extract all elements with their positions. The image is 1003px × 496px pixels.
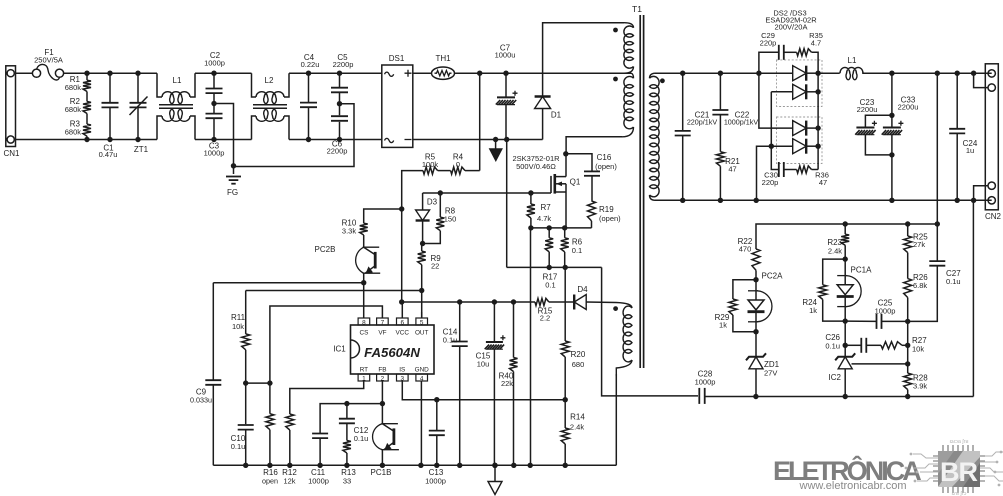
svg-text:3.3k: 3.3k [342, 227, 356, 236]
wire C7 bottom down to sense ground node [506, 140, 508, 268]
wire secondary ground line [655, 199, 992, 201]
svg-text:5: 5 [420, 319, 424, 326]
wire bottom rail L1 to L2 [195, 139, 252, 141]
wire sense ground to C28 corner [602, 267, 698, 396]
pin 8 CS [358, 318, 370, 325]
control ground symbol [492, 463, 497, 468]
svg-text:R7: R7 [541, 203, 552, 212]
diode D3 [422, 193, 424, 210]
wire CS to pin 8 [363, 283, 365, 318]
wire cathodes bus [817, 73, 819, 169]
svg-text:2200u: 2200u [898, 103, 919, 112]
svg-text:0.1: 0.1 [572, 246, 582, 255]
wire secondary positive line [655, 72, 759, 74]
capacitor C25 1000p [845, 320, 876, 322]
resistor R10 3.3k [364, 209, 402, 223]
svg-text:680k: 680k [65, 128, 82, 137]
svg-text:IC1: IC1 [333, 345, 346, 354]
wire IC2 ref line [852, 363, 908, 365]
svg-text:D3: D3 [427, 198, 438, 207]
pin 2 FB [377, 374, 389, 381]
wire D1 cathode up and over to winding W1 top [543, 23, 624, 97]
svg-text:T1: T1 [632, 4, 642, 14]
diode DS3a freewheel [771, 91, 792, 93]
svg-text:TH1: TH1 [435, 54, 451, 63]
capacitor C24 1u [955, 71, 960, 76]
optocoupler LED PC2A [757, 291, 772, 322]
bridge rectifier DS1 [382, 65, 413, 147]
svg-text:0.1u: 0.1u [825, 342, 840, 351]
svg-text:220p/1kV: 220p/1kV [687, 118, 718, 127]
svg-text:680: 680 [572, 360, 585, 369]
svg-text:VF: VF [378, 330, 386, 337]
wire OUT pin to R9 [419, 288, 424, 293]
wire R11 line [246, 290, 422, 292]
svg-text:100k: 100k [422, 160, 439, 169]
capacitor C15 10u electrolytic [492, 299, 497, 304]
svg-text:2200p: 2200p [333, 60, 354, 69]
svg-text:L2: L2 [265, 76, 274, 85]
wire VF line from pin 7 [270, 306, 383, 383]
svg-text:1000p: 1000p [695, 378, 716, 387]
svg-text:1000p: 1000p [204, 149, 225, 158]
svg-text:8: 8 [362, 319, 366, 326]
capacitor C16 open [566, 154, 592, 171]
svg-text:D4: D4 [577, 285, 588, 294]
transformer T1 primary winding W1 [624, 23, 634, 28]
wire CS line to C9 [213, 282, 363, 284]
common-mode choke L1 [157, 73, 162, 97]
svg-text:Q1: Q1 [570, 178, 581, 187]
control ground rail [213, 464, 616, 466]
capacitor C2 1000p [211, 71, 216, 76]
resistor R15 2.2 [549, 301, 574, 303]
svg-text:GND: GND [415, 366, 430, 373]
svg-text:1k: 1k [809, 306, 817, 315]
pin 6 VCC [397, 318, 409, 325]
svg-text:1: 1 [362, 375, 366, 382]
inductor L1 output choke [818, 72, 840, 74]
wire aux bottom to control ground rail [615, 374, 617, 465]
resistor R29 1k [753, 277, 758, 282]
svg-text:D1: D1 [551, 111, 562, 120]
wire gate line [423, 192, 551, 194]
svg-text:4.7: 4.7 [811, 39, 821, 48]
resistor R13 33 [346, 423, 348, 440]
svg-text:250V/5A: 250V/5A [34, 56, 63, 65]
wire TH1 to C7 [455, 72, 584, 74]
node CS [361, 280, 366, 285]
svg-text:(open): (open) [595, 162, 617, 171]
resistor R24 1k [843, 256, 848, 261]
primary ground symbol [493, 137, 498, 142]
pin 1 RT [358, 374, 370, 381]
svg-text:1000p: 1000p [875, 307, 896, 316]
pin 3 IS [397, 374, 409, 381]
wire top rail L1 to L2 [195, 72, 252, 74]
wire to lower rectifier diode [759, 73, 793, 128]
resistor R12 12k [290, 381, 364, 414]
svg-text:4.7k: 4.7k [537, 214, 551, 223]
wire output sense line [935, 71, 940, 76]
capacitor C4 0.22u [306, 71, 311, 76]
svg-text:2.4k: 2.4k [828, 247, 842, 256]
svg-text:CS: CS [359, 330, 368, 337]
resistor R5 100k [438, 170, 451, 172]
svg-text:www.eletronicabr.com: www.eletronicabr.com [799, 480, 907, 492]
svg-text:R14: R14 [570, 413, 585, 422]
wire pin 6 VCC [401, 302, 403, 318]
wire GND pin to rail [420, 381, 422, 465]
resistor R3 680k [86, 114, 88, 125]
svg-text:2200p: 2200p [327, 147, 348, 156]
svg-text:0.1: 0.1 [545, 281, 555, 290]
svg-text:ɛɾʁ ʃɾɔ: ɛɾʁ ʃɾɔ [952, 491, 967, 496]
svg-text:3.9k: 3.9k [913, 382, 927, 391]
svg-text:0: 0 [456, 160, 460, 169]
snubber C30 220p [771, 146, 778, 169]
chip body of logo [938, 451, 980, 487]
resistor R14 2.4k [563, 397, 568, 402]
resistor R7 4.7k gate-source [528, 190, 533, 195]
svg-text:470: 470 [739, 245, 752, 254]
dashed package DS2 [777, 60, 823, 107]
thermistor TH1 [432, 67, 455, 79]
svg-text:R20: R20 [571, 350, 586, 359]
optocoupler phototransistor PC1B [373, 424, 383, 450]
wire divider column [907, 321, 909, 373]
svg-text:FB: FB [378, 366, 386, 373]
svg-text:CN2: CN2 [985, 212, 1002, 221]
resistor R20 680 [564, 267, 566, 341]
wire CN2 stub top [971, 71, 976, 76]
svg-text:VCC: VCC [396, 330, 410, 337]
frame ground FG [226, 176, 241, 178]
svg-text:FA5604N: FA5604N [364, 345, 420, 360]
pin 7 VF [377, 318, 389, 325]
snubber R35 4.7 [784, 51, 796, 53]
fuse F1 250V/5A [16, 72, 33, 74]
varistor ZT1 [135, 71, 140, 76]
svg-text:1000p: 1000p [204, 59, 225, 68]
svg-text:1k: 1k [719, 321, 727, 330]
svg-text:200V/20A: 200V/20A [775, 23, 808, 32]
optocoupler phototransistor PC2B [356, 247, 364, 273]
capacitor C14 0.1u [457, 299, 462, 304]
svg-text:2.2: 2.2 [540, 314, 550, 323]
wire sense ground node line [507, 266, 602, 268]
svg-text:OUT: OUT [415, 330, 429, 337]
wire IS line [437, 399, 565, 401]
svg-text:220p: 220p [762, 178, 779, 187]
common-mode choke L2 [252, 73, 257, 97]
optocoupler LED PC1A [846, 276, 861, 307]
svg-text:open: open [262, 477, 278, 486]
svg-text:IS: IS [399, 366, 405, 373]
capacitor C9 0.033u [212, 283, 214, 380]
svg-text:0.1u: 0.1u [231, 442, 246, 451]
capacitor C26 0.1u [845, 344, 861, 346]
capacitor C27 0.1u [935, 221, 940, 226]
node R5 takeoff [477, 71, 482, 76]
diode DS2a rectifier [759, 72, 793, 74]
transformer T1 primary winding W2 [631, 73, 634, 78]
svg-text:1000u: 1000u [495, 51, 516, 60]
svg-text:R11: R11 [231, 313, 246, 322]
svg-text:12k: 12k [283, 477, 295, 486]
wire bottom rail L2 to DS1 [289, 139, 382, 141]
svg-text:ɛʁɔa ʃɾʁ: ɛʁɔa ʃɾʁ [950, 439, 969, 445]
wire top rail to transformer center tap [583, 72, 631, 74]
capacitor C7 1000u electrolytic [503, 71, 508, 76]
resistor R9 22 [420, 241, 425, 246]
watermark ELETRONICA BR logo [773, 439, 1003, 496]
clamp diode D1 [542, 108, 544, 139]
capacitor C28 1000p Y-cap [698, 388, 700, 404]
svg-text:0.1u: 0.1u [946, 277, 961, 286]
svg-text:RT: RT [360, 366, 368, 373]
svg-text:1u: 1u [966, 146, 974, 155]
wire C5 C6 midpoint to FG [234, 104, 355, 167]
resistor R40 22k [511, 299, 516, 304]
connector CN2 [985, 64, 998, 210]
wire D4 anode to aux winding [586, 301, 616, 304]
resistor R23 2.4k [843, 221, 848, 226]
resistor R4 0 [465, 170, 480, 172]
svg-text:7: 7 [381, 319, 385, 326]
capacitor C23 2200u [889, 71, 894, 76]
resistor R28 3.9k [904, 373, 912, 390]
snubber R36 47 [784, 169, 796, 171]
wire bottom rail DS1 to D1 corner [413, 139, 543, 141]
wire bottom rail CN1 to L1 [16, 139, 158, 141]
svg-text:3: 3 [401, 375, 405, 382]
svg-text:150: 150 [444, 215, 457, 224]
svg-text:L1: L1 [173, 76, 182, 85]
resistor R8 150 [438, 190, 443, 195]
svg-text:0.1u: 0.1u [354, 434, 369, 443]
wire takeoff down to R4 [479, 73, 481, 170]
resistor R1 680k [84, 71, 89, 76]
transformer T1 aux winding [616, 303, 632, 309]
node rectifier anode [756, 71, 761, 76]
wire DS1 to TH1 [413, 72, 432, 74]
svg-text:R19: R19 [599, 205, 614, 214]
wire R5 to VCC feed vertical [402, 171, 423, 209]
dashed package DS3 [777, 117, 823, 164]
resistor R25 27k [905, 221, 910, 226]
wire pin 5 OUT stub [421, 312, 423, 318]
shunt regulator IC2 [835, 353, 855, 360]
svg-text:6: 6 [401, 319, 405, 326]
resistor R17 0.1 sense [548, 228, 550, 238]
wire IC2 cathode [844, 321, 846, 357]
capacitor C12 0.1u [344, 401, 349, 406]
resistor R21 47 [719, 115, 721, 152]
svg-text:2.4k: 2.4k [570, 423, 584, 432]
phase dot secondary [660, 78, 665, 83]
svg-text:BR: BR [940, 457, 977, 487]
svg-text:IC2: IC2 [829, 373, 842, 382]
wire VCC line [402, 301, 535, 303]
diode D4 aux rectifier [573, 295, 575, 310]
resistor R19 open [591, 176, 593, 201]
svg-text:10k: 10k [912, 345, 924, 354]
resistor R27 10k [867, 344, 881, 346]
svg-text:22: 22 [431, 262, 439, 271]
svg-text:2200u: 2200u [857, 105, 878, 114]
capacitor C21 220p/1kV [680, 71, 685, 76]
wire top rail CN1 to L1 [64, 72, 157, 74]
diode DS3b freewheel [771, 145, 792, 147]
svg-text:6.8k: 6.8k [913, 281, 927, 290]
svg-text:220p: 220p [760, 39, 777, 48]
resistor R26 6.8k [907, 253, 909, 279]
resistor R2 680k [86, 92, 88, 102]
diode DS2b rectifier [793, 121, 807, 136]
svg-text:500V/0.46Ω: 500V/0.46Ω [516, 162, 556, 171]
capacitor C3 1000p [213, 93, 215, 113]
snubber C29 220p [759, 52, 778, 73]
wire freewheel anodes [770, 92, 772, 146]
svg-text:(open): (open) [599, 214, 621, 223]
resistor R6 0.1 sense [564, 228, 566, 238]
svg-text:2: 2 [381, 375, 385, 382]
svg-text:680k: 680k [65, 105, 82, 114]
wire top rail L2 to DS1 [289, 72, 382, 74]
capacitor C22 1000p/1kV [718, 71, 723, 76]
capacitor C13 1000p [402, 381, 437, 400]
phase dot winding W2 [613, 77, 618, 82]
wire feedback ground to CN2 ground [972, 200, 974, 396]
capacitor C33 2200u [891, 115, 893, 127]
wire FG node [214, 104, 234, 175]
wire drain node to Q1 [563, 151, 568, 156]
capacitor C6 2200p [339, 93, 341, 115]
connector CN1 [6, 66, 16, 147]
svg-text:L1: L1 [848, 56, 857, 65]
pin 5 OUT [416, 318, 428, 325]
svg-text:10u: 10u [477, 360, 490, 369]
svg-text:22k: 22k [501, 379, 513, 388]
svg-text:1000p: 1000p [425, 477, 446, 486]
wire source node line [531, 227, 592, 229]
wire L1 to CN2 [862, 72, 992, 74]
resistor R11 10k [245, 291, 247, 334]
svg-text:CN1: CN1 [3, 149, 20, 158]
resistor R22 470 [752, 249, 760, 270]
svg-text:PC2A: PC2A [762, 272, 784, 281]
wire source node to control ground rail [530, 228, 532, 465]
svg-text:0.1u: 0.1u [443, 336, 458, 345]
capacitor C10 0.1u [245, 383, 247, 424]
svg-text:FG: FG [227, 188, 238, 197]
zener ZD1 27V [755, 332, 757, 357]
svg-text:1000p/1kV: 1000p/1kV [724, 118, 759, 127]
svg-text:PC1A: PC1A [851, 266, 873, 275]
svg-text:1000p: 1000p [308, 477, 329, 486]
wire feedback ground line [705, 396, 973, 398]
svg-text:27k: 27k [913, 240, 925, 249]
capacitor C5 2200p [337, 71, 342, 76]
transformer T1 secondary winding [650, 73, 656, 78]
wire VF node line [246, 382, 270, 384]
resistor R16 open [269, 383, 271, 414]
wire CN2 stub bottom [971, 198, 976, 203]
svg-text:DS1: DS1 [389, 54, 405, 63]
wire W2 bottom to drain node [566, 137, 622, 154]
svg-text:C16: C16 [597, 153, 612, 162]
svg-text:10k: 10k [232, 322, 244, 331]
svg-text:PC1B: PC1B [371, 468, 392, 477]
svg-text:47: 47 [728, 165, 736, 174]
phase dot winding W1 [613, 28, 618, 33]
svg-text:47: 47 [819, 178, 827, 187]
capacitor C11 1000p [381, 381, 383, 404]
transformer T1 core [639, 15, 641, 368]
wire VCC feed vertical [401, 209, 403, 302]
svg-text:33: 33 [343, 477, 351, 486]
pin 4 GND [416, 374, 428, 381]
svg-text:0.47u: 0.47u [99, 150, 118, 159]
svg-text:4: 4 [420, 375, 424, 382]
phase dot aux winding [613, 306, 618, 311]
capacitor C1 0.47u [107, 71, 112, 76]
ic IC1 FA5604N body [351, 325, 435, 374]
svg-text:0.22u: 0.22u [301, 60, 320, 69]
svg-text:0.033u: 0.033u [190, 396, 212, 405]
svg-text:680k: 680k [65, 83, 82, 92]
svg-text:PC2B: PC2B [315, 245, 336, 254]
svg-text:ZT1: ZT1 [134, 145, 149, 154]
svg-text:27V: 27V [764, 369, 777, 378]
